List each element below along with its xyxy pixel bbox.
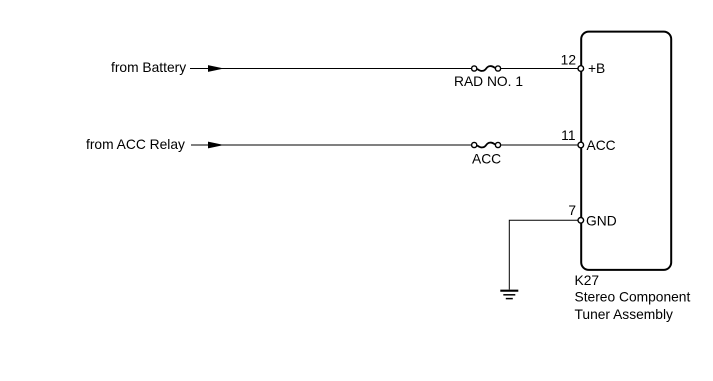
wire fuse RAD NO. 1 to pin 12 xyxy=(501,68,578,70)
node from ACC Relay label xyxy=(86,137,185,152)
fuse ACC xyxy=(472,142,502,166)
svg-text:7: 7 xyxy=(568,203,576,218)
arrow on battery wire xyxy=(208,65,224,72)
svg-text:from Battery: from Battery xyxy=(111,60,186,75)
svg-text:11: 11 xyxy=(561,128,575,143)
wire from Battery to fuse RAD NO. 1 xyxy=(190,68,472,70)
svg-text:+B: +B xyxy=(588,61,605,76)
fuse RAD NO. 1 xyxy=(454,66,523,89)
svg-text:GND: GND xyxy=(586,214,617,229)
svg-text:from ACC Relay: from ACC Relay xyxy=(86,137,185,152)
wire from ACC Relay to fuse ACC xyxy=(191,144,472,146)
node from Battery label xyxy=(111,60,186,75)
svg-text:K27: K27 xyxy=(575,273,600,288)
svg-text:ACC: ACC xyxy=(472,152,501,167)
pin 12 (+B) xyxy=(561,53,606,77)
svg-text:12: 12 xyxy=(561,53,576,68)
wire fuse ACC to pin 11 xyxy=(501,144,578,146)
pin 11 (ACC) xyxy=(561,128,615,153)
wire pin 7 to ground xyxy=(509,220,578,289)
svg-text:RAD NO. 1: RAD NO. 1 xyxy=(454,74,523,89)
arrow on ACC wire xyxy=(208,142,224,149)
svg-text:ACC: ACC xyxy=(587,138,616,153)
component K27 Stereo Component Tuner Assembly xyxy=(575,32,691,322)
svg-text:Tuner Assembly: Tuner Assembly xyxy=(575,307,674,322)
pin 7 (GND) xyxy=(568,203,616,229)
svg-text:Stereo Component: Stereo Component xyxy=(575,290,691,305)
ground xyxy=(500,291,518,299)
